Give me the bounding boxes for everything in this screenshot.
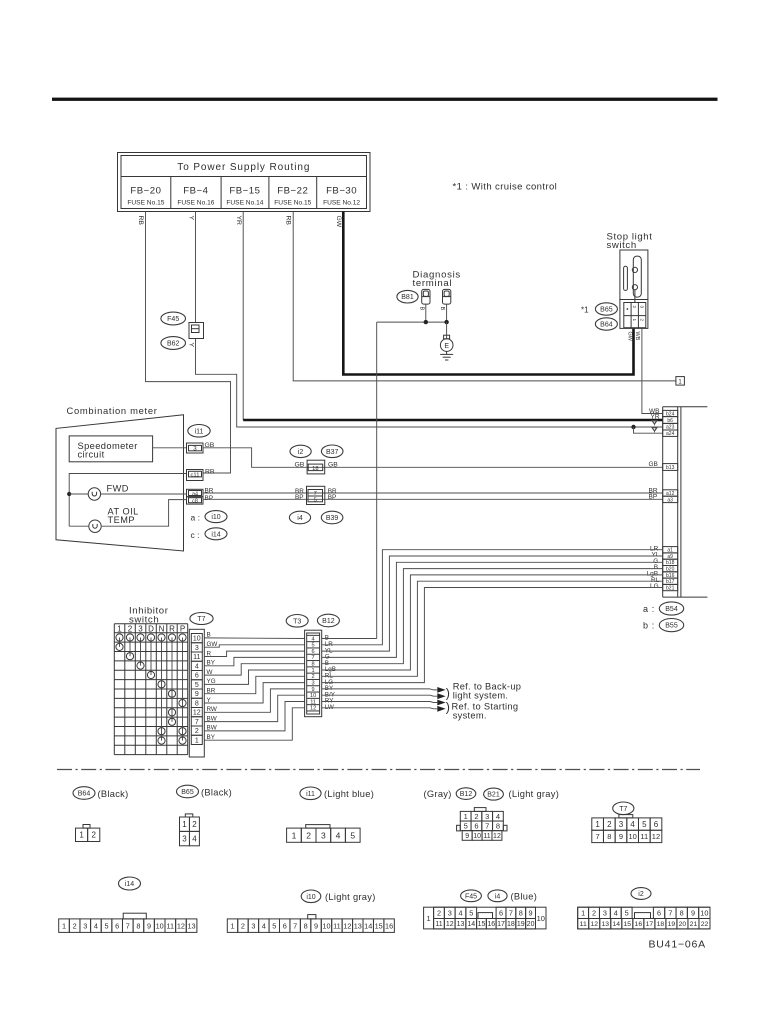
oval B39 <box>321 511 343 524</box>
dash-dot separator line <box>57 769 700 771</box>
svg-text:a24: a24 <box>666 431 675 437</box>
svg-text:17: 17 <box>497 921 505 928</box>
svg-text:11: 11 <box>193 654 200 661</box>
svg-text:B64: B64 <box>600 322 613 329</box>
svg-text:8: 8 <box>496 822 500 831</box>
oval B64 <box>595 318 617 330</box>
svg-text:(Blue): (Blue) <box>511 892 538 902</box>
svg-text:4: 4 <box>458 908 462 917</box>
svg-text:c :: c : <box>191 530 200 540</box>
svg-text:10: 10 <box>473 833 481 840</box>
reference text: back-up light system <box>446 681 521 700</box>
junction dot plug1 <box>424 320 428 324</box>
svg-text:B: B <box>418 307 424 311</box>
svg-text:5: 5 <box>625 908 629 917</box>
svg-text:i2: i2 <box>298 449 304 456</box>
inhibitor switch contact bars <box>120 638 183 741</box>
svg-text:3: 3 <box>640 306 645 309</box>
wire RL from B12 pin 2 to bus <box>322 581 663 676</box>
wire B from B12 pin 8 to bus <box>322 569 663 664</box>
oval T3 <box>286 615 308 628</box>
svg-text:P: P <box>180 624 185 633</box>
svg-text:12: 12 <box>343 921 351 930</box>
bus pin b20 <box>663 566 678 573</box>
svg-text:9: 9 <box>465 833 469 840</box>
junction dot on Y wire <box>631 425 635 429</box>
legend a : B54 <box>643 602 684 615</box>
svg-text:18: 18 <box>657 921 665 928</box>
svg-text:8: 8 <box>136 921 140 930</box>
svg-text:*1: *1 <box>581 305 589 314</box>
meter pin box c11 <box>187 470 204 481</box>
svg-text:2: 2 <box>592 908 596 917</box>
svg-text:20: 20 <box>679 921 687 928</box>
svg-text:switch: switch <box>607 240 637 251</box>
svg-text:system.: system. <box>453 710 487 720</box>
svg-text:12: 12 <box>652 832 660 841</box>
svg-text:7: 7 <box>596 832 600 841</box>
svg-text:8: 8 <box>519 908 523 917</box>
svg-text:16: 16 <box>385 921 393 930</box>
svg-text:7: 7 <box>126 921 130 930</box>
svg-text:YR: YR <box>651 413 660 420</box>
svg-text:2: 2 <box>306 830 311 840</box>
svg-text:4: 4 <box>192 834 197 843</box>
svg-text:RW: RW <box>207 706 217 713</box>
svg-text:BP: BP <box>295 494 304 501</box>
wire B/Y from B12 pin 10 to reference arrow <box>322 694 430 696</box>
svg-text:terminal: terminal <box>413 278 453 289</box>
svg-text:13: 13 <box>354 921 362 930</box>
splice triangle below Y <box>652 428 657 432</box>
wire Y branch to bus pin a24 <box>634 427 663 433</box>
wire GW from inhibitor switch T7 pin 3 to T3 <box>204 645 304 647</box>
svg-text:2: 2 <box>73 921 77 930</box>
node 1 : with cruise control <box>676 377 685 386</box>
svg-text:GB: GB <box>295 461 305 468</box>
svg-text:10: 10 <box>156 921 164 930</box>
meter pin box c8 <box>187 497 204 505</box>
svg-text:B55: B55 <box>665 623 678 630</box>
oval i11 (meter connector) <box>188 425 210 438</box>
reference arrowhead 1 <box>437 687 445 693</box>
connector T3/B12 <box>305 630 322 717</box>
connector pinout B12/B21 <box>457 808 507 841</box>
inline connector 7/5 (i4/B39) <box>307 486 325 504</box>
wire BR from meter pin a4 to bus pin a12 <box>203 492 663 494</box>
svg-text:4: 4 <box>496 812 500 821</box>
svg-text:BP: BP <box>205 495 214 502</box>
svg-text:8: 8 <box>304 921 308 930</box>
junction dot plug2 <box>444 320 448 324</box>
svg-text:10: 10 <box>700 908 708 917</box>
svg-text:RB: RB <box>285 216 292 226</box>
svg-text:9: 9 <box>147 921 151 930</box>
svg-text:FB−20: FB−20 <box>130 185 161 196</box>
wire from speedometer circuit to pin 3 <box>153 447 187 449</box>
svg-text:6: 6 <box>195 673 199 680</box>
svg-text:i4: i4 <box>297 515 303 522</box>
svg-text:B62: B62 <box>167 341 180 348</box>
svg-text:15: 15 <box>375 921 383 930</box>
bus pin b16 <box>663 572 678 579</box>
svg-text:BW: BW <box>207 715 217 722</box>
svg-text:W: W <box>207 669 213 676</box>
svg-text:8: 8 <box>195 701 199 708</box>
svg-text:B54: B54 <box>665 606 678 613</box>
svg-text:(Light gray): (Light gray) <box>509 789 560 799</box>
svg-text:BW: BW <box>207 725 217 732</box>
wire GW (thick) from fuse FB-30 to stop light switch <box>343 212 633 375</box>
svg-text:5: 5 <box>464 822 468 831</box>
svg-text:9: 9 <box>691 908 695 917</box>
svg-text:3: 3 <box>448 908 452 917</box>
svg-text:2: 2 <box>192 820 197 829</box>
wire W from inhibitor switch T7 pin 6 to T3 <box>204 664 304 675</box>
svg-text:GB: GB <box>328 461 338 468</box>
svg-text:(Light gray): (Light gray) <box>325 892 376 902</box>
svg-text:1: 1 <box>427 914 431 923</box>
svg-text:b :: b : <box>643 621 655 631</box>
svg-text:(Black): (Black) <box>98 789 129 799</box>
reference arrowhead 2 <box>437 693 445 699</box>
svg-text:BR: BR <box>207 688 216 695</box>
svg-text:22: 22 <box>701 921 709 928</box>
speedometer circuit box <box>69 436 152 462</box>
svg-text:1: 1 <box>195 738 199 745</box>
svg-text:b13: b13 <box>666 465 675 471</box>
svg-text:14: 14 <box>613 921 621 928</box>
svg-text:TEMP: TEMP <box>108 515 136 525</box>
svg-text:1: 1 <box>292 830 297 840</box>
svg-text:T7: T7 <box>619 806 627 813</box>
svg-text:10: 10 <box>193 636 201 643</box>
svg-text:i11: i11 <box>195 428 204 435</box>
svg-text:19: 19 <box>668 921 676 928</box>
bus pin b6 <box>663 417 678 424</box>
svg-text:Combination meter: Combination meter <box>67 405 158 416</box>
svg-text:5: 5 <box>469 908 473 917</box>
svg-text:10: 10 <box>537 914 545 923</box>
inhibitor switch contact table <box>114 624 187 755</box>
svg-text:B12: B12 <box>322 618 335 625</box>
svg-text:12: 12 <box>177 921 185 930</box>
svg-text:BP: BP <box>328 494 337 501</box>
svg-text:2: 2 <box>640 319 645 322</box>
svg-text:i14: i14 <box>211 531 220 538</box>
svg-text:14: 14 <box>364 921 372 930</box>
meter pin box a4 <box>187 489 204 497</box>
svg-text:3: 3 <box>193 445 197 452</box>
meter internal wire from pin c11 to gauges <box>69 474 186 527</box>
svg-text:3: 3 <box>251 921 255 930</box>
right connector bus strip (B54/B55) <box>663 407 708 597</box>
wire BR from inhibitor switch T7 pin 9 to T3 <box>204 676 304 693</box>
oval i4 <box>289 511 310 524</box>
svg-text:2: 2 <box>195 728 199 735</box>
svg-text:3: 3 <box>83 921 87 930</box>
wire YR (thick) horizontal run to bus pin b6 <box>243 419 663 422</box>
svg-text:2: 2 <box>241 921 245 930</box>
svg-text:5: 5 <box>195 682 199 689</box>
junction dot FWD branch <box>67 492 71 496</box>
svg-text:13: 13 <box>457 921 465 928</box>
bus pin a3 <box>663 496 678 503</box>
svg-text:5: 5 <box>272 921 276 930</box>
svg-text:i10: i10 <box>306 894 315 901</box>
svg-text:B64: B64 <box>78 791 91 798</box>
svg-text:LG: LG <box>650 583 659 590</box>
svg-text:7: 7 <box>509 908 513 917</box>
oval B12 <box>317 614 339 627</box>
svg-text:N: N <box>159 624 165 633</box>
svg-text:5: 5 <box>350 830 355 840</box>
svg-text:FUSE No.16: FUSE No.16 <box>177 200 214 207</box>
svg-text:R: R <box>169 624 175 633</box>
wire Y from fuse FB-4 down to connector F45/B62 <box>195 212 197 323</box>
svg-text:1: 1 <box>182 820 187 829</box>
svg-text:B12: B12 <box>460 791 473 798</box>
svg-text:D: D <box>148 624 154 633</box>
wire RB from fuse FB-20 down to combination meter pin c11 <box>146 212 231 474</box>
svg-text:BY: BY <box>207 660 216 667</box>
wire B from inhibitor switch T7 pin 10 to T3 <box>204 637 304 640</box>
svg-text:FB−15: FB−15 <box>229 185 260 196</box>
wire Y from inhibitor switch T7 pin 8 to T3 <box>204 683 304 703</box>
svg-text:6: 6 <box>657 908 661 917</box>
svg-text:14: 14 <box>467 921 475 928</box>
svg-text:13: 13 <box>188 921 196 930</box>
svg-text:B37: B37 <box>326 449 339 456</box>
wire BW from inhibitor switch T7 pin 2 to T3 <box>204 702 304 731</box>
svg-text:GW: GW <box>207 641 218 648</box>
svg-text:1: 1 <box>595 820 600 829</box>
svg-text:6: 6 <box>654 820 659 829</box>
svg-text:4: 4 <box>614 908 618 917</box>
svg-text:7: 7 <box>485 822 489 831</box>
svg-text:9: 9 <box>314 921 318 930</box>
svg-text:GW: GW <box>627 332 633 342</box>
svg-text:5: 5 <box>104 921 108 930</box>
diagnosis terminal plug 1 <box>422 289 430 304</box>
svg-text:8: 8 <box>607 832 611 841</box>
connector pinout T7 <box>592 815 662 843</box>
svg-text:T7: T7 <box>197 616 205 623</box>
svg-text:*1 : With cruise control: *1 : With cruise control <box>453 182 558 193</box>
oval B81 <box>397 290 418 303</box>
wire G from B12 pin 7 to bus <box>322 562 663 657</box>
diagnosis terminal plug 2 <box>443 289 451 304</box>
svg-text:7: 7 <box>293 921 297 930</box>
svg-text:11: 11 <box>167 921 175 930</box>
svg-text:7: 7 <box>195 719 199 726</box>
reference text: starting system <box>446 701 519 721</box>
svg-text:YR: YR <box>235 216 242 226</box>
svg-text:B65: B65 <box>181 789 194 796</box>
svg-text:a :: a : <box>191 513 200 523</box>
FWD gauge symbol <box>88 488 100 500</box>
svg-text:3: 3 <box>138 624 143 633</box>
reference arrowhead 4 <box>437 706 445 712</box>
svg-text:): ) <box>446 686 450 700</box>
svg-text:(Gray): (Gray) <box>424 789 452 799</box>
svg-text:(Light blue): (Light blue) <box>324 789 374 799</box>
svg-text:16: 16 <box>635 921 643 928</box>
oval i2 (pinout) <box>631 888 651 900</box>
legend c : i14 <box>191 528 228 540</box>
bus pin b17 <box>663 578 678 585</box>
svg-text:2: 2 <box>632 306 637 309</box>
svg-text:11: 11 <box>640 832 648 841</box>
svg-text:6: 6 <box>474 822 478 831</box>
wire YR from fuse FB-15 down <box>242 212 244 421</box>
oval i2 <box>290 445 311 457</box>
wire BY from inhibitor switch T7 pin 1 to T3 <box>204 708 304 740</box>
svg-text:1: 1 <box>230 921 234 930</box>
svg-text:circuit: circuit <box>78 449 105 459</box>
wire RB from fuse FB-22 to numbered node 1 (cruise control) <box>293 212 676 381</box>
svg-text:9: 9 <box>529 908 533 917</box>
svg-text:i2: i2 <box>638 891 644 898</box>
svg-text:3: 3 <box>603 908 607 917</box>
svg-text:i10: i10 <box>211 514 220 521</box>
wire B from diagnosis terminal to B12 pin 4 <box>377 304 447 638</box>
connector pinout B65 <box>180 814 200 846</box>
wire B stub from B12 pin 4 to diagnosis riser <box>322 638 377 640</box>
bus pin a1 <box>663 547 678 554</box>
svg-text:BU41−06A: BU41−06A <box>649 939 706 951</box>
oval B62 <box>161 337 186 350</box>
svg-text:12: 12 <box>590 921 598 928</box>
wire BY from inhibitor switch T7 pin 4 to T3 <box>204 657 304 665</box>
svg-text:6: 6 <box>115 921 119 930</box>
svg-text:B81: B81 <box>401 294 414 301</box>
wire LW from B12 pin 12 to reference arrow <box>322 707 430 709</box>
inline connector 18 (i2/B37) <box>307 460 325 474</box>
svg-text:13: 13 <box>601 921 609 928</box>
oval B65 (pinout) <box>177 785 199 798</box>
wire BY from B12 pin 9 to reference arrow <box>322 688 430 690</box>
svg-text:B: B <box>207 632 211 639</box>
svg-text:F45: F45 <box>167 316 179 323</box>
oval T7 (pinout) <box>613 802 634 815</box>
svg-text:2: 2 <box>92 831 97 840</box>
wire GB from meter pin 3 to bus pin b13 <box>203 448 663 468</box>
wire RY from B12 pin 11 to reference arrow <box>322 701 430 703</box>
wire LG from B12 pin 3 to bus <box>322 588 663 683</box>
svg-text:B: B <box>439 307 445 311</box>
svg-text:5: 5 <box>314 497 317 503</box>
svg-text:F45: F45 <box>465 893 477 900</box>
legend a : i10 <box>191 511 228 523</box>
connector pinout B64 <box>76 825 100 842</box>
svg-text:5: 5 <box>642 820 647 829</box>
svg-text:7: 7 <box>314 491 317 497</box>
fuse box: To Power Supply Routing <box>118 153 371 212</box>
svg-text:4: 4 <box>336 830 341 840</box>
svg-text:3: 3 <box>619 820 624 829</box>
svg-text:GW: GW <box>335 216 342 228</box>
connector pinout i2 <box>578 907 710 929</box>
wire BP from meter pin c8 to bus pin a3 <box>203 498 663 500</box>
svg-text:a3: a3 <box>667 497 673 503</box>
bus pin b24 <box>663 410 678 417</box>
svg-text:4: 4 <box>630 820 635 829</box>
svg-text:2: 2 <box>474 812 478 821</box>
bus pin a24 <box>663 430 678 437</box>
svg-text:1: 1 <box>464 812 468 821</box>
svg-text:FUSE No.15: FUSE No.15 <box>127 200 164 207</box>
wire Y from connector B62 to right bus pins a23/a24 <box>196 339 663 428</box>
oval i11 (pinout) <box>300 787 321 800</box>
svg-text:FB−4: FB−4 <box>183 185 208 196</box>
svg-text:FUSE No.12: FUSE No.12 <box>323 200 360 207</box>
svg-text:11: 11 <box>435 921 442 928</box>
wire BW from inhibitor switch T7 pin 7 to T3 <box>204 695 304 721</box>
svg-text:E: E <box>444 343 449 350</box>
bus pin a9 <box>663 553 678 560</box>
svg-text:16: 16 <box>487 921 495 928</box>
stop light switch body <box>620 250 648 303</box>
oval i14 (pinout) <box>119 877 141 890</box>
svg-text:1: 1 <box>62 921 66 930</box>
svg-text:12: 12 <box>193 710 201 717</box>
svg-text:i14: i14 <box>125 881 134 888</box>
svg-text:6: 6 <box>499 908 503 917</box>
splice triangle below YR <box>652 421 657 425</box>
svg-text:1: 1 <box>581 908 585 917</box>
bus pin b13 <box>663 464 678 471</box>
bus pin a23 <box>663 423 678 430</box>
wire LgB from B12 pin 1 to bus <box>322 575 663 670</box>
wire FWD gauge row <box>69 493 88 495</box>
svg-text:FB−22: FB−22 <box>277 185 308 196</box>
svg-text:3: 3 <box>195 645 199 652</box>
connector pinout F45/i4 <box>424 907 546 929</box>
oval F45 <box>161 312 186 325</box>
connector pinout i11 <box>287 825 361 843</box>
svg-text:GB: GB <box>649 461 658 468</box>
legend b : B55 <box>643 619 684 632</box>
wire YL from B12 pin 6 to bus <box>322 556 663 651</box>
svg-text:18: 18 <box>312 466 318 472</box>
oval i10 (pinout) <box>301 890 321 903</box>
svg-text:12: 12 <box>446 921 454 928</box>
connector F45/B62 (fuse joint) <box>189 323 204 339</box>
wire AT OIL TEMP gauge row <box>69 525 88 527</box>
bus pin b18 <box>663 559 678 566</box>
connector pinout i14 <box>59 913 197 932</box>
svg-text:18: 18 <box>507 921 515 928</box>
svg-text:7: 7 <box>668 908 672 917</box>
svg-text:2: 2 <box>607 820 612 829</box>
svg-text:RB: RB <box>205 468 215 475</box>
svg-text:To Power Supply Routing: To Power Supply Routing <box>177 162 310 173</box>
svg-text:BR: BR <box>205 488 214 495</box>
svg-text:15: 15 <box>478 921 486 928</box>
wire WB from stop light switch to bus pin b24 <box>642 328 663 413</box>
svg-text:FWD: FWD <box>107 483 129 493</box>
svg-text:a :: a : <box>643 604 655 614</box>
svg-text:4: 4 <box>195 664 199 671</box>
svg-text:15: 15 <box>624 921 632 928</box>
wire LR from B12 pin 5 to bus <box>322 550 663 645</box>
svg-text:11: 11 <box>580 921 587 928</box>
svg-text:BY: BY <box>207 734 216 741</box>
bus pin a12 <box>663 490 678 497</box>
svg-text:1: 1 <box>117 624 122 633</box>
svg-text:B21: B21 <box>487 792 500 799</box>
